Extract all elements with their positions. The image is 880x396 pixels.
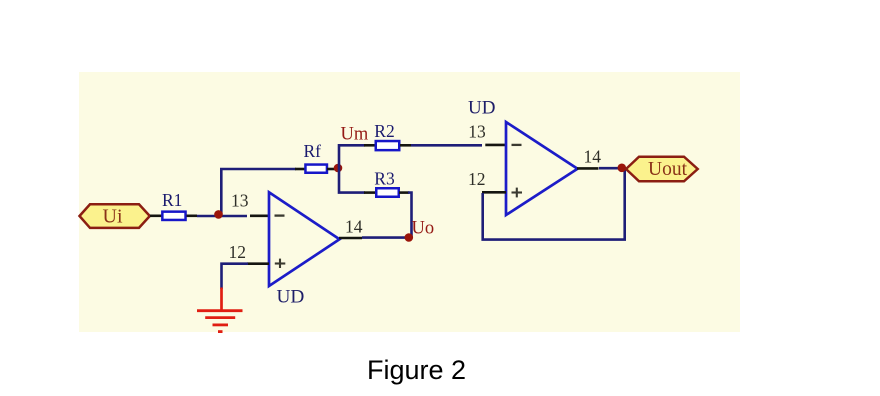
wire Um down to R3 xyxy=(339,168,365,193)
wire node A up to Rf xyxy=(221,169,296,214)
svg-text:Uo: Uo xyxy=(412,219,435,239)
svg-text:13: 13 xyxy=(231,190,249,210)
wire Ui to R1 xyxy=(150,215,163,218)
svg-text:12: 12 xyxy=(468,169,486,189)
node A junction dot xyxy=(214,210,223,219)
pin 12 stub of op-amp U1 xyxy=(247,262,269,265)
pin 13 stub of op-amp U1 xyxy=(250,215,269,218)
wire Um up to R2 xyxy=(339,145,365,168)
pin 14 stub of op-amp U1 xyxy=(339,237,362,240)
pin 13 stub of op-amp U2 xyxy=(485,144,506,147)
wire R1 to node A xyxy=(197,215,219,218)
svg-text:R1: R1 xyxy=(162,190,182,210)
op-amp U1 xyxy=(269,192,340,286)
svg-text:Rf: Rf xyxy=(304,141,322,161)
resistor R1 xyxy=(162,212,197,220)
wire pin 12 to ground xyxy=(222,264,249,289)
resistor R3 xyxy=(364,188,409,197)
svg-text:UD: UD xyxy=(277,286,305,307)
svg-text:Uout: Uout xyxy=(648,159,688,180)
svg-text:UD: UD xyxy=(468,98,495,119)
pin 14 stub of op-amp U2 xyxy=(577,167,599,170)
resistor Rf xyxy=(295,165,336,173)
svg-text:R3: R3 xyxy=(374,169,395,189)
wire U1 output to node Uo xyxy=(362,236,410,239)
port Uout xyxy=(626,157,698,182)
resistor R2 xyxy=(364,141,411,150)
svg-text:13: 13 xyxy=(468,122,486,142)
schematic background panel xyxy=(79,72,740,332)
svg-text:Ui: Ui xyxy=(103,205,123,227)
svg-text:14: 14 xyxy=(345,217,363,237)
wire node A to op-amp U1 pin 13 xyxy=(219,215,247,218)
wire R3 down to node Uo xyxy=(408,193,412,238)
pin 12 stub of op-amp U2 xyxy=(482,191,506,194)
feedback wire U2 output to pin 12 xyxy=(483,168,625,240)
port Ui xyxy=(80,204,150,228)
node Uo junction dot xyxy=(405,233,414,242)
svg-text:Um: Um xyxy=(341,125,369,145)
op-amp U2 xyxy=(506,122,578,215)
caption Figure 2 xyxy=(367,355,466,386)
node Um junction dot xyxy=(334,164,343,173)
svg-text:12: 12 xyxy=(229,242,247,262)
wire R2 to op-amp U2 pin 13 xyxy=(411,144,482,147)
svg-text:R2: R2 xyxy=(374,121,394,141)
svg-text:14: 14 xyxy=(584,146,602,166)
wire U2 output to port Uout xyxy=(599,167,626,170)
output junction dot xyxy=(618,164,627,173)
ground xyxy=(197,288,243,332)
